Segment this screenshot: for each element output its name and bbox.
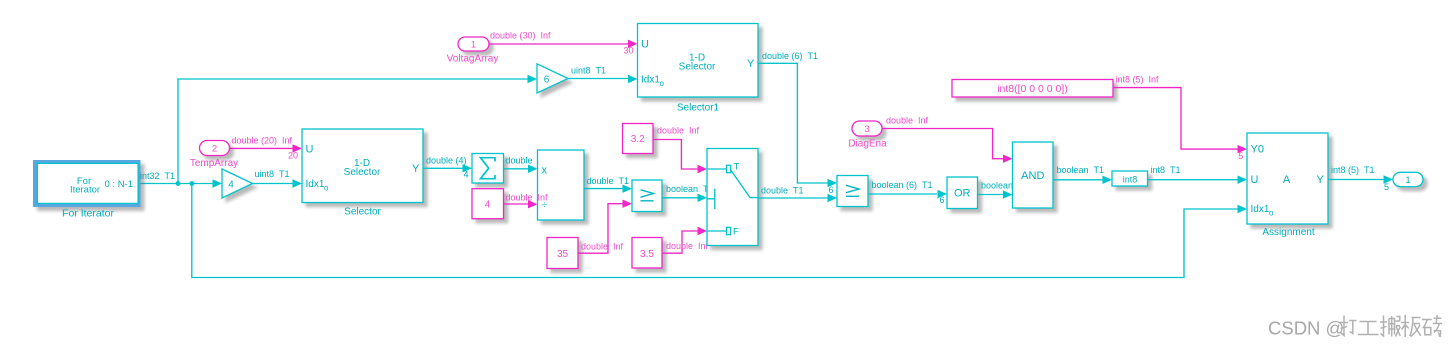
port DiagEna inport 3 xyxy=(852,121,882,136)
svg-text:F: F xyxy=(733,227,739,238)
watermark CSDN xyxy=(1268,318,1344,339)
block Switch xyxy=(707,149,758,246)
svg-text:For Iterator: For Iterator xyxy=(62,208,114,220)
svg-text:T: T xyxy=(734,161,740,172)
wire Gain4 to Selector Idx1 xyxy=(253,179,303,187)
watermark CJK glyph gong xyxy=(1358,322,1379,335)
svg-text:OR: OR xyxy=(954,188,971,200)
switch diagonal xyxy=(731,170,758,198)
wire Selector1 Y to GE2 input1 xyxy=(758,63,837,187)
svg-text:Selector1: Selector1 xyxy=(677,103,720,114)
svg-text:boolean T1: boolean T1 xyxy=(1057,165,1105,175)
svg-text:Y: Y xyxy=(1317,174,1325,186)
svg-text:CSDN @: CSDN @ xyxy=(1268,318,1344,339)
svg-text:double Inf: double Inf xyxy=(886,116,929,126)
gain block 4 xyxy=(222,169,253,198)
svg-text:Selector: Selector xyxy=(344,207,381,218)
svg-text:int32 T1: int32 T1 xyxy=(140,171,175,181)
svg-text:A: A xyxy=(1283,174,1291,186)
svg-text:double T1: double T1 xyxy=(587,176,630,186)
block Selector1 (1-D) xyxy=(638,24,759,98)
svg-text:boolean: boolean xyxy=(981,181,1013,191)
relational operator GE2 xyxy=(837,176,868,207)
svg-text:Idx1: Idx1 xyxy=(641,75,660,86)
sum block Sigma xyxy=(472,154,504,184)
svg-text:3: 3 xyxy=(864,124,869,135)
wire OR to AND input2 xyxy=(978,190,1013,198)
wire int8 constant to Assignment Y0 xyxy=(1113,88,1247,154)
svg-text:double Inf: double Inf xyxy=(657,126,700,136)
wire Assignment Y to Outport xyxy=(1328,175,1393,183)
watermark CJK glyph zhuan xyxy=(1422,315,1442,337)
svg-text:Iterator: Iterator xyxy=(70,185,100,196)
block Divide xyxy=(538,150,585,220)
watermark CJK glyph da xyxy=(1340,316,1357,336)
wire AND to int8 xyxy=(1053,176,1112,184)
svg-text:3.5: 3.5 xyxy=(640,249,654,260)
svg-text:Selector: Selector xyxy=(679,62,716,73)
svg-text:TempArray: TempArray xyxy=(190,158,238,169)
svg-text:Assignment: Assignment xyxy=(1262,227,1314,238)
wire DiagEna to AND input1 xyxy=(882,129,1013,163)
constant int8([0 0 0 0 0]) xyxy=(952,80,1113,98)
svg-text:uint8 T1: uint8 T1 xyxy=(571,66,606,76)
svg-text:0 : N-1: 0 : N-1 xyxy=(105,179,134,190)
block Selector (1-D) xyxy=(302,129,423,203)
gain block 6 xyxy=(537,64,568,93)
svg-text:VoltagArray: VoltagArray xyxy=(447,54,499,65)
svg-text:double (20) Inf: double (20) Inf xyxy=(232,136,293,146)
constant 4 xyxy=(472,189,504,219)
svg-text:Idx1: Idx1 xyxy=(1251,204,1270,215)
constant 3.5 xyxy=(632,238,662,269)
svg-text:35: 35 xyxy=(557,249,569,260)
block For Iterator (selected) xyxy=(33,160,141,207)
svg-text:20: 20 xyxy=(288,151,298,161)
wire int8 to Assignment U xyxy=(1148,176,1248,184)
svg-text:int8 T1: int8 T1 xyxy=(1151,165,1181,175)
svg-text:AND: AND xyxy=(1021,170,1044,182)
svg-text:int8 (5) Inf: int8 (5) Inf xyxy=(1116,75,1160,85)
svg-text:U: U xyxy=(306,144,314,156)
switch F input stub xyxy=(707,227,731,234)
svg-text:3.2: 3.2 xyxy=(631,134,645,145)
constant 3.2 xyxy=(623,124,654,154)
svg-text:int8 (5) T1: int8 (5) T1 xyxy=(1331,165,1375,175)
svg-text:Y: Y xyxy=(412,163,420,175)
svg-text:U: U xyxy=(641,39,649,51)
svg-text:4: 4 xyxy=(485,200,491,211)
watermark CJK glyph ban1 xyxy=(1380,316,1400,337)
svg-text:double Inf: double Inf xyxy=(581,242,624,252)
svg-text:double (6) T1: double (6) T1 xyxy=(762,51,818,61)
block Assignment xyxy=(1247,133,1328,224)
svg-text:U: U xyxy=(1251,174,1259,186)
svg-text:DiagEna: DiagEna xyxy=(848,139,887,150)
wire J1 up to Gain6 xyxy=(178,75,537,184)
wire 35 to GE1 input2 xyxy=(578,200,632,254)
svg-text:o: o xyxy=(660,79,665,88)
wire Gain6 to Selector1 Idx1 xyxy=(568,75,638,83)
svg-text:6: 6 xyxy=(544,75,550,86)
wire For Iterator output trunk xyxy=(139,179,223,187)
port TempArray inport 2 xyxy=(200,141,230,156)
wire TempArray to Selector U xyxy=(230,144,303,152)
svg-text:5: 5 xyxy=(1384,182,1389,192)
wire 3.2 to Switch T xyxy=(653,140,707,174)
svg-text:Idx1: Idx1 xyxy=(306,179,325,190)
svg-text:2: 2 xyxy=(212,144,217,155)
svg-text:Y0: Y0 xyxy=(1251,144,1264,156)
constant 35 xyxy=(547,238,578,269)
svg-text:Selector: Selector xyxy=(344,167,381,178)
port VoltagArray inport 1 xyxy=(458,37,489,51)
wire J2 down bottom trunk to Assignment Idx1 xyxy=(192,184,1247,278)
block DataTypeConversion int8 xyxy=(1112,171,1148,186)
svg-text:Y: Y xyxy=(747,58,755,70)
svg-text:int8: int8 xyxy=(1123,174,1138,184)
svg-text:boolean (6) T1: boolean (6) T1 xyxy=(872,180,933,190)
svg-text:5: 5 xyxy=(1238,151,1243,161)
wire VoltagArray to Selector1 U xyxy=(489,40,638,48)
svg-text:o: o xyxy=(1269,209,1274,218)
wire Divide to GE1 xyxy=(584,185,632,193)
svg-text:int8([0 0 0 0 0]): int8([0 0 0 0 0]) xyxy=(997,83,1068,95)
port Outport 1 xyxy=(1393,172,1423,186)
logic block OR xyxy=(947,177,978,209)
svg-text:x: x xyxy=(542,165,548,177)
wire GE1 to Switch control xyxy=(662,194,707,202)
node junction J2 xyxy=(189,181,194,186)
svg-text:4: 4 xyxy=(228,179,234,190)
svg-text:4: 4 xyxy=(463,170,468,180)
wire Switch to GE2 input2 xyxy=(758,194,837,202)
svg-text:30: 30 xyxy=(623,46,633,56)
svg-text:6: 6 xyxy=(828,185,833,195)
relational operator GE1 xyxy=(632,180,662,212)
svg-text:double Inf: double Inf xyxy=(506,193,549,203)
svg-text:1: 1 xyxy=(1405,175,1410,186)
logic block AND xyxy=(1013,142,1054,208)
wire Sum to Divide x xyxy=(504,165,538,173)
svg-text:double (30) Inf: double (30) Inf xyxy=(490,31,551,41)
wire GE2 to OR xyxy=(868,190,947,198)
wire Selector Y to Sum xyxy=(423,164,472,172)
wire Const4 to Divide div xyxy=(504,200,538,208)
svg-text:uint8 T1: uint8 T1 xyxy=(255,169,290,179)
switch T input stub xyxy=(707,165,731,172)
switch control indicator xyxy=(707,189,715,210)
svg-text:double T1: double T1 xyxy=(761,186,804,196)
svg-text:double Inf: double Inf xyxy=(666,241,709,251)
svg-text:o: o xyxy=(324,184,329,193)
watermark CJK glyph ban2 xyxy=(1401,315,1421,337)
svg-text:1: 1 xyxy=(471,40,476,51)
svg-text:6: 6 xyxy=(939,195,944,205)
wire 3.5 to Switch F xyxy=(662,227,707,253)
node junction J1 xyxy=(176,181,181,186)
svg-text:double (4): double (4) xyxy=(426,156,467,166)
svg-text:double: double xyxy=(506,156,533,166)
